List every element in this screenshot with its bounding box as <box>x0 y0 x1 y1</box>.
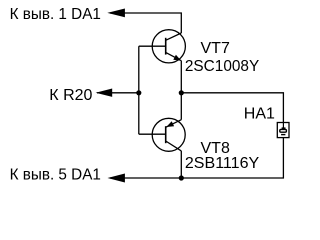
wire top rail to K vyv. 1 DA1 <box>110 13 181 33</box>
node base junction <box>136 90 141 95</box>
transistor VT7 <box>152 30 185 63</box>
node output junction <box>179 90 184 95</box>
wire VT8 collector diagonal <box>166 141 182 151</box>
wire VT8 collector vertical <box>180 151 182 178</box>
wire VT7 emitter diagonal <box>166 52 182 60</box>
wire VT7 collector diagonal <box>166 33 182 40</box>
wire VT8 emitter diagonal <box>166 120 182 128</box>
buzzer HA1 <box>277 123 289 138</box>
svg-text:К выв. 5 DA1: К выв. 5 DA1 <box>10 166 101 183</box>
wire output node to HA1 <box>181 93 283 123</box>
svg-text:2SC1008Y: 2SC1008Y <box>185 58 260 75</box>
wire base lead VT7 <box>139 45 166 47</box>
svg-text:HA1: HA1 <box>244 105 275 122</box>
arrow to R20 <box>96 89 113 97</box>
svg-text:К выв. 1 DA1: К выв. 1 DA1 <box>10 6 101 23</box>
wire base lead VT8 <box>139 133 166 135</box>
transistor VT8 <box>152 118 185 151</box>
wire VT8 emitter vertical <box>180 93 182 120</box>
wire VT7 emitter vertical to output node <box>180 61 182 93</box>
svg-text:2SB1116Y: 2SB1116Y <box>185 155 260 172</box>
wire bottom rail to K vyv. 5 DA1 <box>110 138 283 178</box>
svg-text:К R20: К R20 <box>49 87 92 104</box>
arrow to pin 5 DA1 <box>108 174 125 183</box>
node bottom rail junction <box>179 175 184 180</box>
arrow to pin 1 DA1 <box>107 9 125 18</box>
wire K R20 <box>97 92 139 94</box>
wire base bus <box>138 46 140 134</box>
svg-text:VT7: VT7 <box>201 40 230 57</box>
